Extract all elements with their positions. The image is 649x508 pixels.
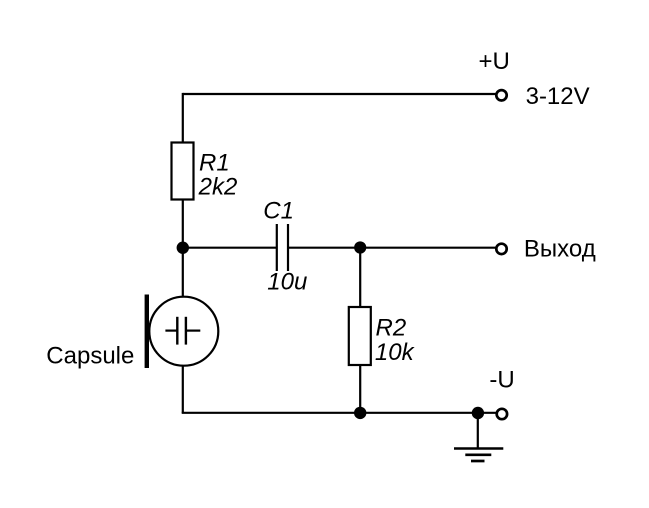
capsule internal lead left [165, 330, 177, 332]
node C junction dot (R2 / ground rail) [354, 407, 366, 419]
capacitor C1 left plate [276, 224, 278, 271]
capsule internal lead right [186, 330, 200, 332]
svg-text:2k2: 2k2 [198, 174, 238, 201]
wire: ground stem down from node D [477, 413, 479, 449]
ground symbol bar 2 (middle) [465, 453, 491, 456]
resistor R1 [172, 143, 194, 200]
capacitor C1 right plate [287, 224, 289, 271]
terminal +U open circle [496, 90, 506, 100]
svg-text:Выход: Выход [524, 236, 596, 263]
capsule internal capacitor right plate [185, 317, 187, 345]
svg-text:Capsule: Capsule [46, 342, 134, 369]
svg-text:3-12V: 3-12V [526, 83, 590, 110]
wire: +U supply rail horizontal [183, 93, 496, 95]
terminal output open circle [496, 244, 506, 254]
wire: ground rail horizontal [182, 412, 497, 414]
svg-text:R1: R1 [199, 149, 230, 176]
svg-text:-U: -U [489, 366, 514, 393]
svg-text:+U: +U [479, 48, 510, 75]
wire: node A down to capsule top [182, 248, 184, 297]
ground symbol bar 3 (bottom, shortest) [471, 460, 485, 463]
wire: R1 bottom to node A [182, 200, 184, 248]
wire: R2 bottom to ground rail [359, 365, 361, 413]
wire: vertical from +U rail down to R1 top [182, 93, 184, 143]
node B junction dot (C1 / R2 / output) [354, 241, 366, 253]
wire: capsule bottom to ground rail [182, 365, 184, 413]
microphone capsule electret symbol: outer circle [149, 297, 218, 366]
svg-text:C1: C1 [263, 197, 294, 224]
node A junction dot (R1 / capsule / C1) [177, 242, 189, 254]
svg-text:10u: 10u [267, 269, 307, 296]
svg-text:R2: R2 [376, 314, 407, 341]
wire: C1 right plate to output terminal [288, 247, 496, 249]
svg-text:10k: 10k [375, 339, 416, 366]
wire: node A to C1 left plate [183, 247, 277, 249]
ground symbol bar 1 (top, widest) [454, 447, 503, 450]
capsule internal capacitor left plate [176, 317, 178, 345]
node D junction dot (ground symbol / -U terminal) [472, 407, 484, 419]
resistor R2 [349, 307, 371, 365]
terminal -U open circle [497, 409, 507, 419]
capsule membrane thick bar [145, 295, 149, 369]
wire: node B down to R2 top [359, 248, 361, 308]
